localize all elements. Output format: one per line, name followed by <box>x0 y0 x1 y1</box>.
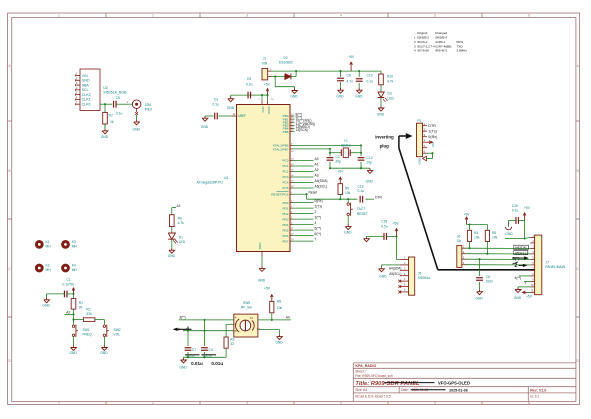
svg-text:J2M: J2M <box>145 103 152 107</box>
svg-text:PD1: PD1 <box>282 206 288 210</box>
svg-text:4: 4 <box>340 14 342 18</box>
svg-text:KiCad E.D.A. kicad 7.0.5: KiCad E.D.A. kicad 7.0.5 <box>355 395 390 399</box>
svg-text:A1: A1 <box>315 162 319 166</box>
svg-text:LED: LED <box>388 96 395 100</box>
svg-text:Id: 1/1: Id: 1/1 <box>530 395 539 399</box>
svg-text:PD6: PD6 <box>282 234 288 238</box>
svg-text:GND: GND <box>475 297 483 301</box>
svg-text:PC5: PC5 <box>282 186 288 190</box>
svg-text:Date:: Date: <box>401 388 409 392</box>
svg-text:GND: GND <box>275 340 283 344</box>
svg-text:GND: GND <box>100 351 108 355</box>
svg-text:K1: K1 <box>46 240 50 244</box>
svg-text:33: 33 <box>230 342 234 346</box>
svg-text:A0: A0 <box>315 157 319 161</box>
svg-text:2025-01-08: 2025-01-08 <box>449 388 467 392</box>
svg-text:0.1u: 0.1u <box>367 80 374 84</box>
svg-text:2: 2 <box>315 210 317 214</box>
svg-text:VCC: VCC <box>261 106 265 113</box>
svg-text:GND: GND <box>133 128 141 132</box>
svg-text:A5(SCL): A5(SCL) <box>315 184 328 188</box>
svg-text:B: B <box>9 169 11 173</box>
svg-text:+5V: +5V <box>524 206 531 210</box>
svg-text:1: 1 <box>58 401 60 405</box>
svg-text:J7: J7 <box>546 261 550 265</box>
svg-text:SI5351A_BOB: SI5351A_BOB <box>103 91 127 95</box>
svg-text:Size: A4: Size: A4 <box>355 388 367 392</box>
svg-text:20p: 20p <box>367 161 373 165</box>
svg-text:Sheet: /: Sheet: / <box>355 369 366 373</box>
svg-text:PC3: PC3 <box>282 175 288 179</box>
svg-text:CLK2: CLK2 <box>82 93 91 97</box>
svg-text:GND: GND <box>258 242 262 250</box>
svg-text:0.1u: 0.1u <box>358 189 365 193</box>
svg-text:SW2: SW2 <box>114 328 121 332</box>
svg-text:GND: GND <box>514 296 522 300</box>
svg-text:K3: K3 <box>72 240 76 244</box>
svg-text:C5: C5 <box>247 77 251 81</box>
svg-text:A2: A2 <box>315 168 319 172</box>
svg-text:+5V: +5V <box>464 212 471 216</box>
svg-text:P1: P1 <box>417 119 421 123</box>
svg-text:+5V: +5V <box>526 295 533 299</box>
svg-text:GND: GND <box>43 304 51 308</box>
svg-text:A4(SDA): A4(SDA) <box>315 179 328 183</box>
svg-text:13(SCK): 13(SCK) <box>296 128 309 132</box>
svg-text:B: B <box>577 169 579 173</box>
svg-text:plug: plug <box>380 143 390 148</box>
svg-text:RESET/PC6: RESET/PC6 <box>271 192 288 196</box>
svg-text:GND: GND <box>101 135 109 139</box>
svg-text:+5V: +5V <box>264 83 271 87</box>
svg-text:1: 1 <box>58 14 60 18</box>
svg-text:A5[SCL]: A5[SCL] <box>515 251 526 255</box>
svg-text:10k: 10k <box>474 236 480 240</box>
svg-text:CLK1: CLK1 <box>82 98 91 102</box>
svg-text:100n: 100n <box>486 280 494 284</box>
svg-text:K2: K2 <box>46 264 50 268</box>
svg-text:CLK0: CLK0 <box>82 102 91 106</box>
svg-text:C2: C2 <box>336 155 340 159</box>
svg-text:GND: GND <box>290 94 298 98</box>
svg-text:PANEL/MAIN: PANEL/MAIN <box>545 265 565 269</box>
svg-text:R3: R3 <box>230 338 234 342</box>
svg-text:4.7k: 4.7k <box>178 221 185 225</box>
svg-text:D1: D1 <box>179 235 183 239</box>
svg-text:DTR: DTR <box>428 124 436 128</box>
svg-text:PD5: PD5 <box>282 228 288 232</box>
svg-text:A1: A1 <box>177 204 181 208</box>
svg-text:C20: C20 <box>512 204 518 208</box>
svg-text:U1: U1 <box>224 176 228 180</box>
svg-text:7: 7 <box>525 282 527 286</box>
svg-text:2: 2 <box>152 14 154 18</box>
svg-text:GND: GND <box>355 95 363 99</box>
svg-text:C10: C10 <box>367 74 373 78</box>
svg-text:R9: R9 <box>345 187 349 191</box>
svg-text:TACT: TACT <box>357 207 365 211</box>
svg-text:3: 3 <box>246 401 248 405</box>
svg-text:4: 4 <box>340 401 342 405</box>
svg-text:R6: R6 <box>178 216 182 220</box>
svg-text:A4[SDA]: A4[SDA] <box>515 246 527 250</box>
svg-text:3(**): 3(**) <box>179 316 186 320</box>
svg-text:S1: S1 <box>250 316 254 320</box>
svg-text:D2: D2 <box>284 56 288 60</box>
svg-text:GND: GND <box>168 254 176 258</box>
svg-text:0.01u: 0.01u <box>191 361 203 366</box>
svg-text:B: B <box>235 329 237 333</box>
svg-text:C: C <box>235 322 237 326</box>
svg-text:LED: LED <box>179 240 186 244</box>
svg-text:PD2: PD2 <box>282 212 288 216</box>
svg-text:R2: R2 <box>86 307 90 311</box>
svg-text:GND: GND <box>379 275 387 279</box>
svg-text:AREF: AREF <box>238 114 247 118</box>
svg-text:K4: K4 <box>72 264 76 268</box>
svg-text:16MHz: 16MHz <box>341 143 352 147</box>
svg-text:Reset: Reset <box>309 191 318 195</box>
svg-text:SW1: SW1 <box>83 328 90 332</box>
svg-text:6(**): 6(**) <box>315 232 322 236</box>
svg-text:0(Rx): 0(Rx) <box>428 135 437 139</box>
svg-text:5: 5 <box>434 401 436 405</box>
svg-text:GND: GND <box>366 179 374 183</box>
svg-text:C13: C13 <box>367 156 373 160</box>
svg-text:+5V: +5V <box>264 287 271 291</box>
svg-text:3: 3 <box>246 14 248 18</box>
svg-text:SW5: SW5 <box>243 301 250 305</box>
svg-text:1(Tx): 1(Tx) <box>315 205 323 209</box>
svg-text:C7: C7 <box>192 348 196 352</box>
svg-text:/D/Y6-68: /D/Y6-68 <box>417 49 429 53</box>
svg-text:10k: 10k <box>277 306 283 310</box>
svg-text:ATmega328P-PU: ATmega328P-PU <box>197 181 224 185</box>
svg-text:PD0: PD0 <box>282 201 288 205</box>
svg-text:R5: R5 <box>492 231 496 235</box>
svg-text:R10: R10 <box>387 75 393 79</box>
svg-text:S2: S2 <box>257 327 261 331</box>
svg-text:PC4: PC4 <box>282 181 288 185</box>
svg-text:4: 4 <box>315 221 317 225</box>
svg-text:C18: C18 <box>381 220 387 224</box>
svg-text:GND: GND <box>505 232 513 236</box>
svg-text:RESET: RESET <box>357 212 368 216</box>
svg-text:4(**): 4(**) <box>515 276 522 280</box>
svg-text:C12: C12 <box>358 184 364 188</box>
svg-text:KPA_RADIO: KPA_RADIO <box>355 364 376 368</box>
svg-text:A3: A3 <box>315 173 319 177</box>
svg-text:Inverting: Inverting <box>375 135 394 140</box>
svg-text:U2: U2 <box>103 86 108 90</box>
svg-text:IPEX: IPEX <box>145 108 153 112</box>
svg-text:DTR: DTR <box>375 195 382 199</box>
svg-text:VFO-GPS-OLED: VFO-GPS-OLED <box>438 380 470 385</box>
svg-text:3(**): 3(**) <box>315 216 322 220</box>
svg-text:FREQ: FREQ <box>83 333 93 337</box>
svg-text:PC0: PC0 <box>282 159 288 163</box>
svg-text:2: 2 <box>515 263 518 269</box>
svg-text:J6: J6 <box>457 234 461 238</box>
svg-text:A0: A0 <box>286 316 290 320</box>
svg-text:GND: GND <box>344 230 352 234</box>
svg-text:GND: GND <box>179 366 187 370</box>
svg-text:A2: A2 <box>66 310 70 314</box>
svg-text:PD4: PD4 <box>282 223 288 227</box>
svg-text:C8: C8 <box>347 74 351 78</box>
svg-text:GND: GND <box>418 157 422 165</box>
svg-text:+5V: +5V <box>348 55 355 59</box>
svg-text:GND: GND <box>82 79 90 83</box>
svg-text:4.7k: 4.7k <box>387 79 394 83</box>
svg-text:MH: MH <box>72 268 78 272</box>
svg-text:D3: D3 <box>388 92 392 96</box>
svg-text:20p: 20p <box>336 160 342 164</box>
svg-text:GND: GND <box>227 106 235 110</box>
svg-text:Y1: Y1 <box>344 139 348 143</box>
svg-text:VOL: VOL <box>114 333 121 337</box>
svg-text:4.7u: 4.7u <box>347 80 354 84</box>
svg-text:GND: GND <box>69 351 77 355</box>
svg-text:/R/6-4(7): /R/6-4(7) <box>435 49 447 53</box>
svg-text:10k: 10k <box>492 236 498 240</box>
svg-text:MH: MH <box>46 268 52 272</box>
svg-text:VIN: VIN <box>82 74 88 78</box>
svg-text:PB5: PB5 <box>283 130 289 134</box>
svg-text:File: R909-VFO.kicad_sch: File: R909-VFO.kicad_sch <box>355 374 392 378</box>
svg-text:+5V: +5V <box>337 169 344 173</box>
svg-text:SCL: SCL <box>82 88 89 92</box>
svg-text:R8: R8 <box>277 300 281 304</box>
svg-text:A5(SCL): A5(SCL) <box>389 272 401 276</box>
svg-text:0.1u: 0.1u <box>512 209 519 213</box>
svg-text:0.01u: 0.01u <box>211 361 223 366</box>
svg-text:C4: C4 <box>209 348 213 352</box>
svg-text:0(Rx): 0(Rx) <box>315 199 323 203</box>
svg-text:0.5u: 0.5u <box>381 224 388 228</box>
svg-text:GND: GND <box>201 125 209 129</box>
svg-text:C6: C6 <box>486 275 490 279</box>
svg-text:PC2: PC2 <box>282 170 288 174</box>
svg-text:2: 2 <box>152 401 154 405</box>
svg-text:GND: GND <box>377 112 385 116</box>
svg-text:+5V: +5V <box>431 142 435 147</box>
svg-text:330: 330 <box>86 312 92 316</box>
svg-text:3.8MHz: 3.8MHz <box>457 49 468 53</box>
svg-text:J1: J1 <box>263 57 267 61</box>
svg-text:SI5351a: SI5351a <box>418 276 430 280</box>
svg-text:AVCC: AVCC <box>267 106 271 115</box>
svg-text:XTAL2/PB7: XTAL2/PB7 <box>273 148 289 152</box>
svg-text:5(**): 5(**) <box>315 227 322 231</box>
svg-text:C9: C9 <box>116 96 120 100</box>
svg-text:A4(SDA): A4(SDA) <box>389 267 402 271</box>
svg-text:PD7: PD7 <box>282 239 288 243</box>
svg-text:6: 6 <box>528 401 530 405</box>
svg-text:R1: R1 <box>79 301 83 305</box>
svg-text:RF_Sw: RF_Sw <box>241 306 252 310</box>
svg-text:10k: 10k <box>345 191 351 195</box>
svg-text:Rev: V2.0: Rev: V2.0 <box>530 388 546 392</box>
svg-text:1k: 1k <box>110 120 114 124</box>
svg-text:GND: GND <box>336 95 344 99</box>
svg-text:7: 7 <box>315 238 317 242</box>
svg-text:C3: C3 <box>214 98 218 102</box>
svg-text:0.2u: 0.2u <box>246 83 253 87</box>
svg-text:PC1: PC1 <box>282 164 288 168</box>
svg-text:MH: MH <box>46 245 52 249</box>
svg-text:PD3: PD3 <box>282 217 288 221</box>
svg-text:ES1083C: ES1083C <box>279 60 294 64</box>
svg-text:MH: MH <box>72 245 78 249</box>
svg-text:0.1u*6V: 0.1u*6V <box>63 283 76 287</box>
svg-text:Title: R909-SDR PANEL: Title: R909-SDR PANEL <box>355 381 420 387</box>
svg-text:6: 6 <box>528 14 530 18</box>
svg-text:SBA: SBA <box>82 83 90 87</box>
svg-text:VIN: VIN <box>262 61 268 65</box>
svg-text:R7: R7 <box>109 113 113 117</box>
svg-text:0.1u: 0.1u <box>213 102 220 106</box>
svg-text:C1: C1 <box>67 278 71 282</box>
svg-text:R4: R4 <box>474 231 478 235</box>
svg-text:GND: GND <box>258 279 266 283</box>
svg-text:1(Tx): 1(Tx) <box>428 129 437 133</box>
svg-text:5: 5 <box>434 14 436 18</box>
svg-text:A: A <box>235 316 237 320</box>
svg-text:J5: J5 <box>418 271 422 275</box>
svg-text:+5V: +5V <box>393 222 400 226</box>
svg-text:I2c: I2c <box>457 239 462 243</box>
svg-text:0.1u: 0.1u <box>116 112 123 116</box>
